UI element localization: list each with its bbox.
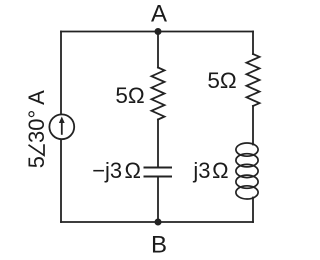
wire left lower segment — [60, 139, 62, 222]
wire right between resistor and inductor — [252, 106, 254, 145]
wire right branch upper lead — [252, 32, 254, 55]
svg-text:5: 5 — [24, 156, 49, 168]
node B junction dot — [155, 219, 162, 226]
svg-text:A: A — [151, 0, 167, 27]
current source I1 arrow — [59, 117, 65, 135]
resistor R1 5ohm middle zigzag — [152, 68, 165, 120]
svg-text:j3Ω: j3Ω — [192, 158, 228, 183]
wire left upper segment — [60, 32, 62, 115]
svg-text:5Ω: 5Ω — [115, 83, 144, 108]
node A junction dot — [155, 28, 162, 35]
wire right below inductor — [252, 198, 254, 223]
svg-text:5Ω: 5Ω — [207, 68, 236, 93]
wire top horizontal A rail — [61, 31, 253, 33]
wire bottom horizontal B rail — [61, 221, 253, 223]
wire middle below capacitor — [157, 177, 159, 223]
wire middle between resistor and capacitor — [157, 120, 159, 168]
capacitor C1 bottom plate — [145, 176, 172, 178]
svg-text:30° A: 30° A — [24, 90, 49, 143]
angle symbol — [29, 144, 45, 155]
resistor R2 5ohm right zigzag — [247, 54, 260, 106]
source label 5 angle 30 deg A rotated — [24, 90, 49, 168]
svg-text:B: B — [151, 232, 167, 259]
inductor L1 coil loops — [236, 143, 258, 199]
capacitor C1 top plate — [145, 167, 172, 169]
wire middle branch upper lead — [157, 32, 159, 68]
svg-text:−j3Ω: −j3Ω — [92, 158, 141, 183]
current source I1 circle — [49, 114, 74, 139]
